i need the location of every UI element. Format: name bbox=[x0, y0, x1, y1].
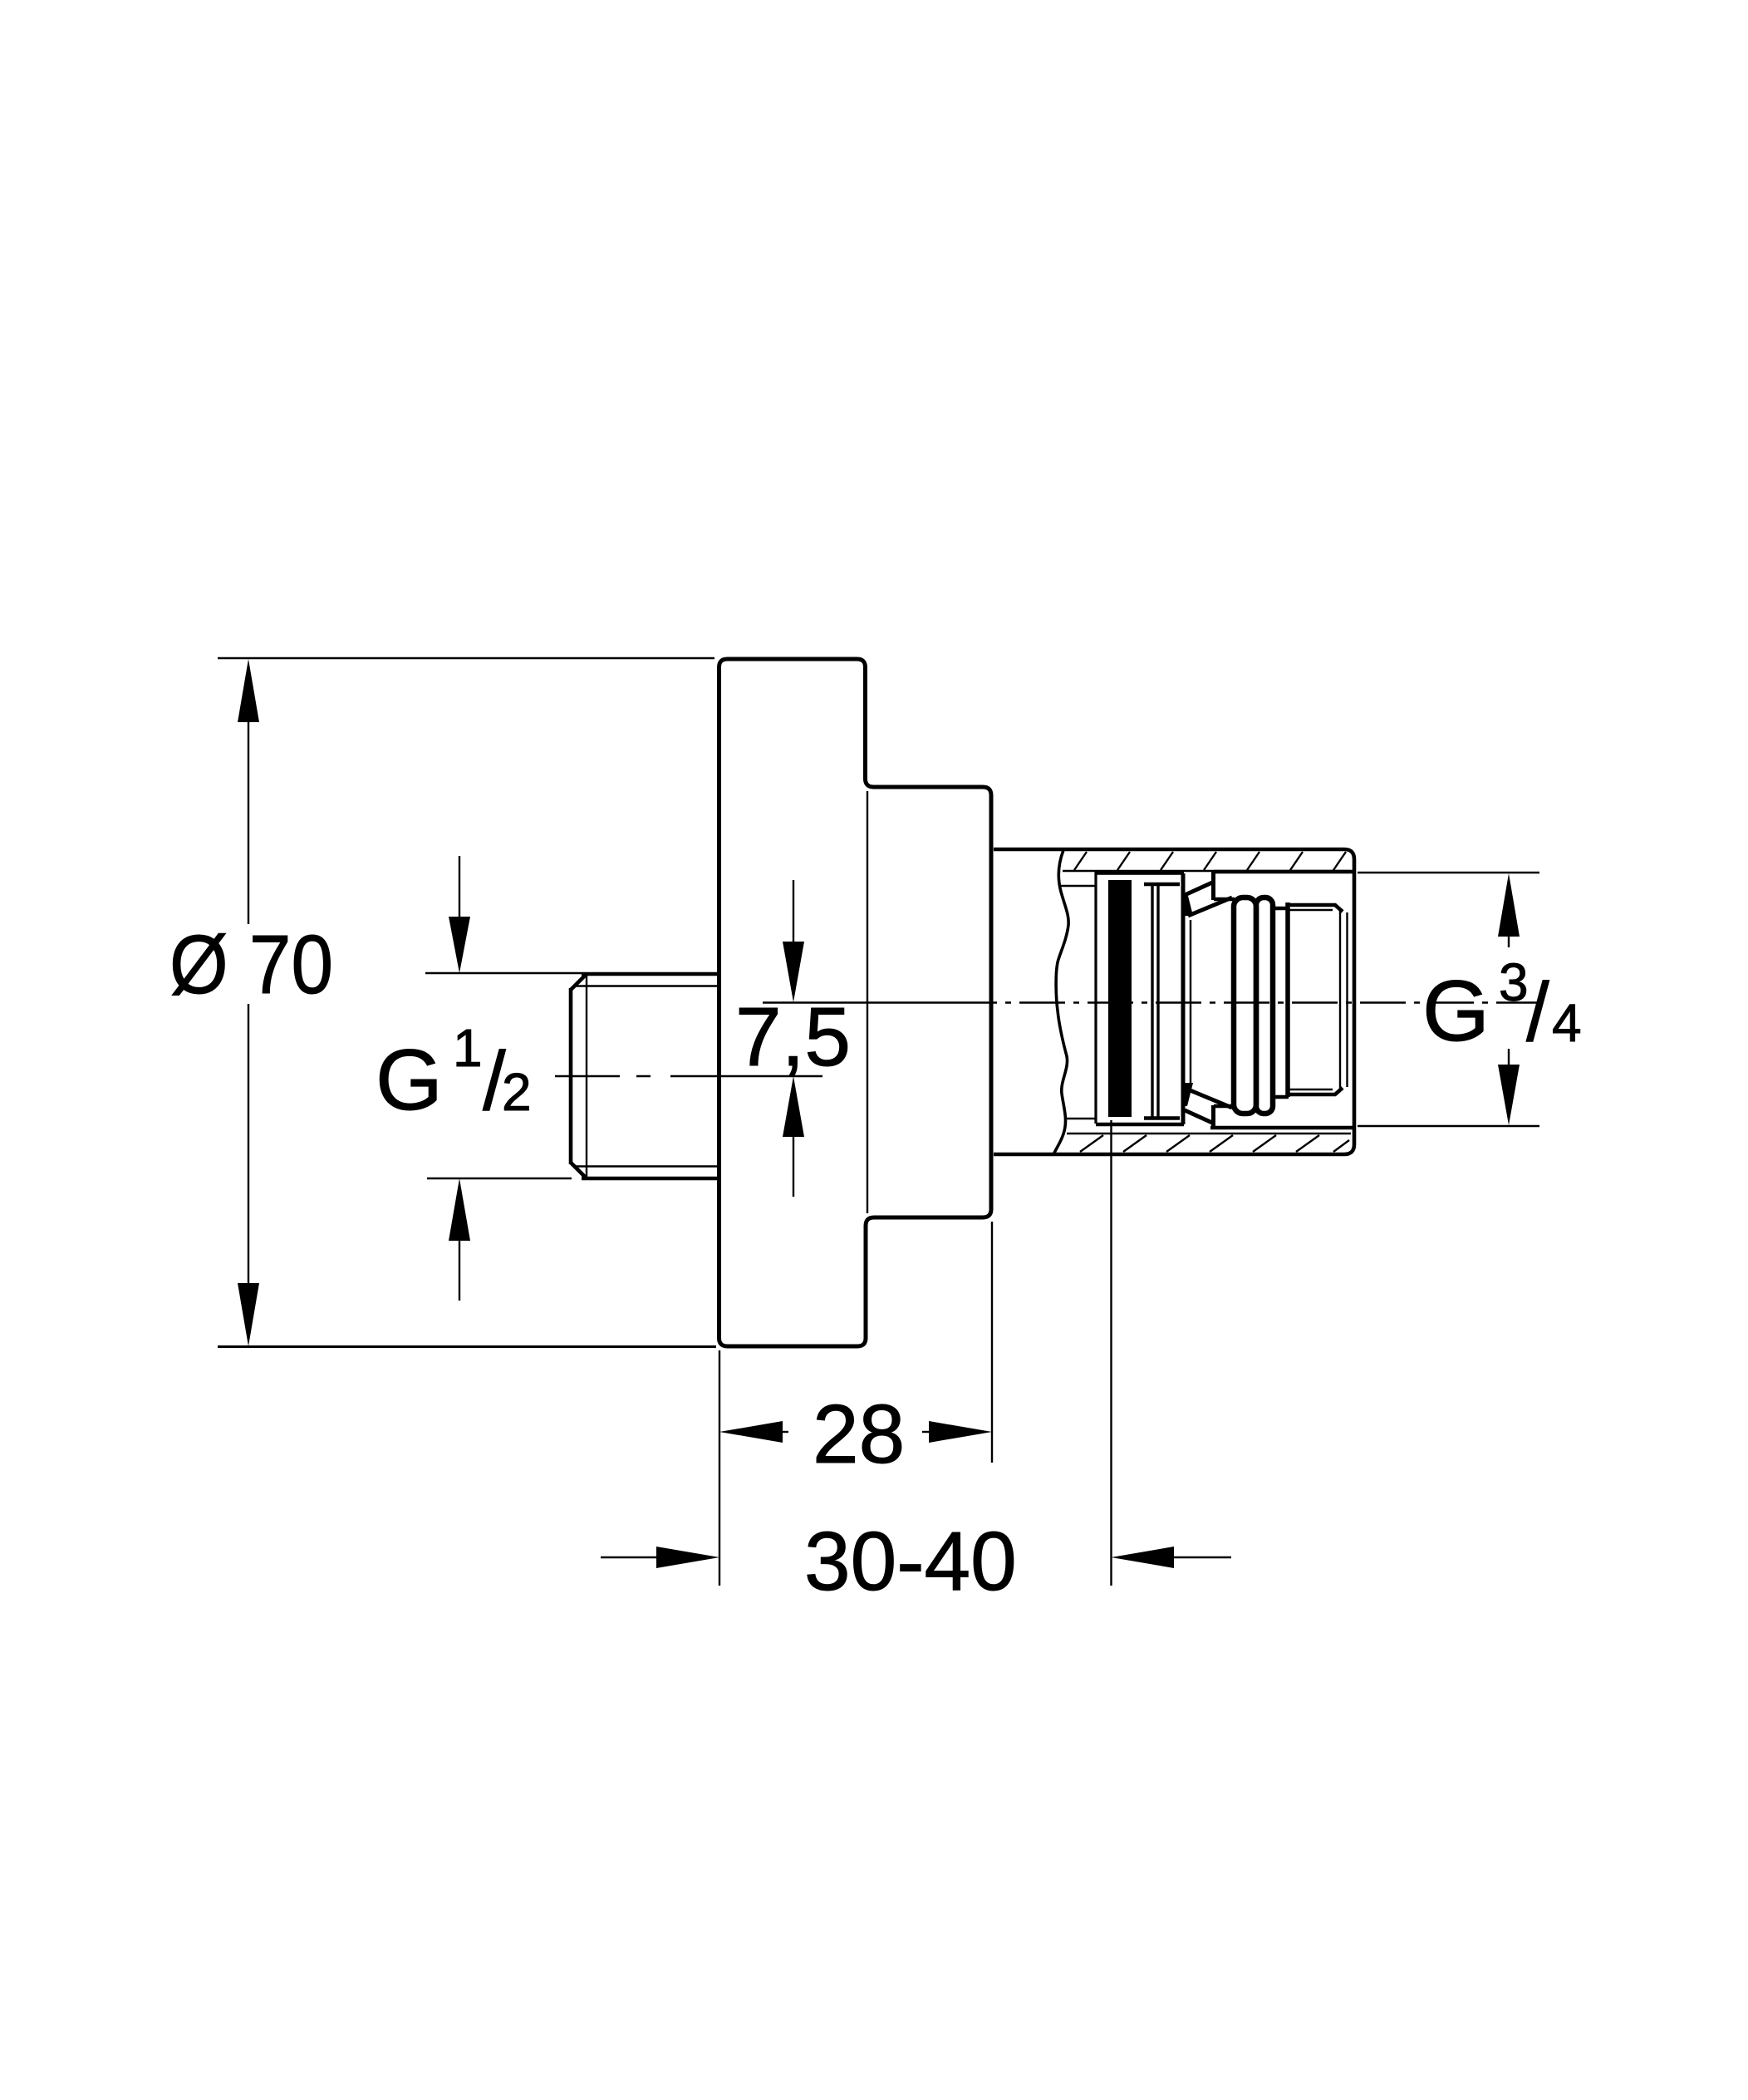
dimension 7,5: lower arrow bbox=[793, 1135, 794, 1197]
hatching top wall band bbox=[1074, 852, 1346, 870]
dimension 30-40: arrows bbox=[601, 1557, 658, 1558]
dimension G1/2: bottom arrow bbox=[459, 1240, 460, 1301]
svg-text:G: G bbox=[376, 1032, 443, 1129]
nipple left face (interrupted by funnel opening) bbox=[1211, 872, 1215, 900]
svg-text:/: / bbox=[1526, 966, 1549, 1059]
main axis centerline (solid part doubles as 7,5 upper dimension line) bbox=[763, 1001, 951, 1003]
dimension 28: arrows bbox=[719, 1421, 783, 1443]
funnel wedge fills bbox=[1181, 893, 1193, 916]
right section: inner bore thin boundary (top) bbox=[1063, 870, 1351, 872]
thread ring bump 2 bbox=[1256, 898, 1273, 1114]
seal seat steps (top) bbox=[1096, 871, 1184, 875]
dimension Ø70: extension lines bbox=[218, 657, 714, 659]
svg-text:28: 28 bbox=[813, 1388, 905, 1481]
bore root thin lines bbox=[1289, 909, 1333, 911]
dimension G1/2: top arrow bbox=[459, 856, 460, 918]
svg-text:Ø 70: Ø 70 bbox=[169, 918, 333, 1011]
clamped tube wall thin line bbox=[1094, 872, 1097, 1124]
stub centerline (dash-dot) bbox=[555, 1075, 822, 1077]
svg-text:G: G bbox=[1422, 963, 1490, 1060]
bore crest lines bbox=[1289, 905, 1343, 912]
seal seat steps (bottom) bbox=[1096, 1123, 1184, 1127]
tangent junction line flange/cylinder bbox=[867, 791, 868, 1213]
svg-text:30-40: 30-40 bbox=[804, 1515, 1017, 1608]
svg-text:2: 2 bbox=[502, 1062, 532, 1122]
dimension G3/4: bottom arrow bbox=[1508, 1049, 1510, 1065]
svg-text:1: 1 bbox=[453, 1018, 483, 1078]
funnel-to-thread connector edges bbox=[1214, 898, 1235, 902]
dimension G3/4: extension lines bbox=[1358, 872, 1539, 873]
dimension 30-40: extension vertical (seal plane) bbox=[1110, 1120, 1112, 1586]
right section: inner bore thin boundary (bottom) bbox=[1067, 1133, 1351, 1134]
stub end chamfer edges bbox=[571, 974, 587, 990]
svg-text:3: 3 bbox=[1499, 952, 1529, 1012]
dimension 28: extension verticals bbox=[719, 1350, 720, 1586]
threaded stub G1/2 outer diameter lines bbox=[582, 972, 719, 976]
dimension G1/2: extension lines bbox=[425, 972, 582, 974]
dimension Ø70: arrowheads bbox=[238, 659, 259, 722]
stub left end face bbox=[569, 988, 573, 1164]
bore end face vertical bbox=[1285, 902, 1290, 1097]
washer lines bbox=[1151, 885, 1153, 1118]
stub chamfer tangent line bbox=[586, 975, 587, 1178]
svg-text:7,5: 7,5 bbox=[735, 991, 851, 1084]
freehand break (wavy) line bbox=[1053, 850, 1068, 1155]
hatching bottom wall band bbox=[1080, 1135, 1349, 1152]
right section: outer sleeve outline bbox=[994, 849, 1354, 1154]
stub thread root lines bbox=[575, 985, 719, 986]
nipple outer diameter lines bbox=[1214, 870, 1353, 874]
svg-text:4: 4 bbox=[1552, 993, 1582, 1053]
thread ring bump 1 bbox=[1234, 898, 1256, 1114]
insert collar thick line bbox=[1181, 873, 1186, 1124]
funnel inner tangent line bbox=[1190, 920, 1191, 1085]
clamped tube inner wall lines bbox=[1061, 885, 1096, 887]
flat seal ring (solid black in section) bbox=[1108, 880, 1132, 1117]
dimension 7,5: upper arrow bbox=[793, 880, 794, 942]
funnel chamfer edges top bbox=[1185, 883, 1212, 895]
dimension Ø70: dimension line bbox=[248, 721, 249, 924]
funnel chamfer edges bottom bbox=[1185, 1110, 1212, 1123]
bore end tangent thin lines bbox=[1339, 911, 1341, 1089]
flange + cylinder body (one continuous outline) bbox=[719, 659, 992, 1346]
dimension G3/4: top arrow bbox=[1498, 873, 1520, 937]
